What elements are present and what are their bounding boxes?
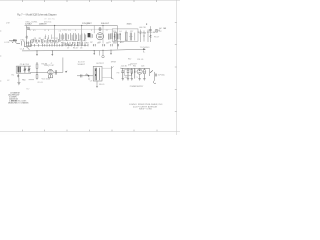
- resistor R14: [131, 68, 133, 78]
- junction: [36, 72, 37, 73]
- notes list bottom left: [8, 92, 29, 105]
- resistor R9: [149, 35, 151, 38]
- wire T2 bottom: [96, 81, 98, 86]
- T1 secondary winding: [126, 33, 127, 41]
- wire ps right: [149, 68, 151, 76]
- svg-text:C24 .05: C24 .05: [137, 59, 143, 61]
- tube V3 envelope: [48, 70, 53, 75]
- junction: [52, 50, 53, 51]
- tube V5 label 35Z5: [127, 22, 149, 26]
- svg-text:C3: C3: [34, 38, 36, 40]
- rectifier area labels: [138, 27, 167, 34]
- socket pins row: [63, 42, 85, 46]
- svg-text:C23: C23: [141, 66, 144, 68]
- svg-text:FIELD: FIELD: [99, 84, 105, 86]
- value labels band: [34, 38, 58, 40]
- volume control R4: [36, 72, 38, 79]
- svg-text:40: 40: [121, 72, 123, 74]
- wire gang left side: [15, 66, 17, 73]
- svg-text:C4: C4: [44, 38, 46, 40]
- antenna wire: [26, 26, 28, 45]
- wire det output: [54, 71, 63, 73]
- IF can extra strokes: [59, 33, 86, 45]
- wire to ground: [18, 78, 20, 83]
- capacitor C11: [103, 44, 105, 46]
- T1 primary winding: [115, 33, 117, 41]
- svg-text:117 V. 60 CY: 117 V. 60 CY: [147, 32, 159, 34]
- svg-text:POWER SUPPLY: POWER SUPPLY: [130, 86, 144, 88]
- loop antenna L1: [14, 39, 16, 41]
- T2 core marks: [95, 69, 97, 75]
- svg-text:C9: C9: [90, 80, 92, 82]
- capacitor C27: [111, 33, 112, 39]
- resistor R6 leads: [91, 34, 93, 39]
- oscillator coil L2: [18, 67, 20, 73]
- svg-text:L5: L5: [125, 31, 127, 33]
- wire grid bus: [27, 28, 113, 30]
- svg-text:TO PHONO: TO PHONO: [140, 47, 150, 49]
- svg-text:455KC: 455KC: [113, 42, 119, 44]
- svg-text:OSC.-CONV.: OSC.-CONV.: [25, 22, 37, 24]
- svg-text:LOOP: LOOP: [4, 42, 10, 44]
- ground ps 1: [122, 79, 124, 81]
- tube V4 envelope: [96, 33, 103, 40]
- capacitor C29: [118, 34, 119, 40]
- svg-text:R1: R1: [39, 38, 41, 40]
- chassis arrow 3: [93, 51, 95, 55]
- T1 value labels: [113, 31, 134, 45]
- resistor R1: [26, 36, 28, 39]
- trimmer C4: [17, 74, 19, 78]
- svg-text:150: 150: [143, 71, 146, 73]
- T2 secondary: [98, 68, 100, 80]
- wire V5: [139, 74, 141, 78]
- svg-text:50L6GT: 50L6GT: [101, 23, 110, 25]
- chassis arrow 2: [51, 51, 53, 56]
- junction: [88, 75, 90, 77]
- junction: [102, 50, 103, 51]
- svg-text:C4: C4: [46, 42, 48, 44]
- wire output grid line: [77, 75, 93, 77]
- V5 cathode: [138, 69, 140, 72]
- tube V3 base: [88, 33, 91, 37]
- svg-text:R11: R11: [133, 66, 136, 68]
- wire ps top: [121, 67, 150, 69]
- diode load cluster: [48, 75, 53, 78]
- wire gang bottom: [16, 72, 31, 74]
- switch SW1: [150, 70, 153, 72]
- coupling capacitor C5: [55, 70, 56, 74]
- svg-text:C9: C9: [72, 43, 74, 45]
- svg-text:R3 4.7: R3 4.7: [73, 48, 78, 50]
- svg-text:12SQ7: 12SQ7: [44, 65, 50, 67]
- svg-text:C7: C7: [51, 38, 53, 40]
- svg-text:L2: L2: [7, 80, 9, 82]
- svg-text:R12: R12: [128, 58, 131, 60]
- svg-text:L40 C30: L40 C30: [139, 27, 146, 29]
- ground: [17, 82, 20, 85]
- svg-text:C17: C17: [130, 31, 133, 33]
- junction on B+ rail: [81, 25, 82, 26]
- svg-text:6: 6: [48, 30, 49, 32]
- wire cathode bypass: [88, 78, 90, 80]
- svg-text:3 5: 3 5: [68, 30, 71, 32]
- svg-text:PAD: PAD: [22, 78, 26, 81]
- svg-text:R-7: R-7: [27, 89, 30, 91]
- wire antenna lead: [9, 40, 17, 42]
- arrowhead: [143, 48, 146, 50]
- chassis arrow 4: [110, 51, 112, 55]
- svg-text:2 7 8: 2 7 8: [63, 30, 67, 32]
- wire bottom left: [29, 79, 34, 81]
- variable capacitor C2: [24, 66, 27, 73]
- svg-text:I.F.: I.F.: [44, 23, 47, 25]
- svg-text:C8 .05: C8 .05: [37, 82, 43, 84]
- tube V4 electrodes: [98, 35, 102, 38]
- svg-text:8: 8: [45, 30, 46, 32]
- arrow to grid: [65, 71, 68, 73]
- svg-text:4 5: 4 5: [33, 30, 36, 32]
- band switch S1: [22, 41, 32, 46]
- choke L6: [134, 68, 135, 78]
- ground ps 5: [143, 79, 145, 81]
- T1 trimmer C15: [130, 33, 131, 41]
- wire screen drop: [93, 26, 95, 34]
- capacitor C6: [81, 74, 82, 77]
- svg-text:20: 20: [131, 72, 133, 74]
- svg-text:ADJUST: ADJUST: [78, 61, 86, 64]
- tube V3 label 12SQ7: [82, 23, 92, 25]
- coil tail arc: [27, 47, 30, 50]
- svg-text:6: 6: [75, 30, 76, 32]
- svg-text:DET: DET: [87, 23, 92, 25]
- wire drop to V3: [81, 26, 83, 44]
- IF transformer windings and pins: [62, 33, 86, 40]
- value labels under IF: [67, 48, 82, 50]
- svg-text:B+: B+: [143, 51, 145, 53]
- svg-text:C2-A C2-B: C2-A C2-B: [20, 63, 30, 66]
- junction on B+ rail: [54, 25, 55, 26]
- phono jack J1: [102, 51, 104, 58]
- svg-text:455 KC: 455 KC: [44, 22, 52, 24]
- svg-text:50L6GT: 50L6GT: [78, 64, 86, 66]
- svg-text:C8: C8: [80, 48, 82, 50]
- svg-text:SPKR: SPKR: [111, 61, 117, 63]
- resistor R10: [144, 68, 146, 78]
- svg-text:3: 3: [30, 30, 31, 32]
- wire AVC right end: [99, 51, 101, 56]
- svg-text:( W: ( W: [6, 23, 9, 25]
- filter capacitor C21: [127, 68, 130, 78]
- capacitor C12: [111, 44, 112, 46]
- wire stub: [16, 42, 20, 44]
- capacitor C26: [109, 34, 110, 40]
- svg-text:C6: C6: [106, 42, 108, 44]
- svg-text:NEW YORK: NEW YORK: [139, 109, 153, 111]
- rectifier tube V5 envelope: [137, 69, 142, 74]
- svg-text:L4: L4: [119, 31, 121, 33]
- svg-text:R7: R7: [90, 42, 92, 44]
- wire drop to V4: [102, 26, 104, 44]
- svg-text:117V.AC: 117V.AC: [158, 74, 166, 77]
- pin number labels: [30, 30, 109, 32]
- wire rectifier lead: [149, 26, 151, 42]
- bottom right block: [129, 104, 163, 111]
- svg-text:VOL 500K: VOL 500K: [42, 79, 51, 81]
- wire det plate: [62, 58, 64, 73]
- heater row value labels: [11, 41, 116, 47]
- variable capacitor C3: [28, 66, 31, 73]
- grid capacitor C25: [98, 27, 101, 31]
- svg-text:C7: C7: [67, 48, 69, 50]
- value labels ps: [121, 66, 146, 79]
- svg-text:R2: R2: [56, 38, 58, 40]
- ground ps 2: [127, 79, 129, 81]
- svg-text:5: 5: [91, 30, 92, 32]
- svg-text:C16: C16: [113, 31, 116, 33]
- tube socket pins V1 V2: [31, 40, 60, 43]
- svg-text:1 4: 1 4: [59, 30, 62, 32]
- tube V4 label 50L6: [101, 23, 110, 25]
- tube V2 label 12SK7: [39, 22, 52, 26]
- resistor R7: [86, 74, 89, 76]
- IF transformer T1 box: [112, 29, 138, 41]
- speaker SP1: [102, 66, 114, 79]
- chassis arrow T2: [96, 86, 98, 88]
- capacitor C18: [149, 29, 152, 30]
- capacitor C13: [117, 44, 118, 46]
- T1 winding ticks: [114, 33, 132, 40]
- output transformer T2 box: [93, 66, 102, 81]
- svg-text:C5: C5: [97, 42, 99, 44]
- tube V3 electrodes: [49, 71, 52, 74]
- resistor R3: [36, 62, 38, 72]
- svg-text:L3: L3: [47, 38, 49, 40]
- ground ps 4: [138, 79, 140, 81]
- svg-text:SR: SR: [163, 28, 166, 30]
- T2 primary: [95, 68, 96, 80]
- pilot lamp P1: [155, 29, 158, 32]
- junction: [94, 50, 95, 51]
- junction on B+ rail: [102, 25, 103, 26]
- svg-text:12: 12: [36, 42, 38, 44]
- capacitor C1: [27, 27, 31, 29]
- tube V1 label 12SA7: [25, 22, 38, 26]
- svg-text:MEASURED TO CHASSIS: MEASURED TO CHASSIS: [8, 102, 29, 105]
- filter capacitor C20: [122, 68, 125, 78]
- svg-text:OUTPUT: OUTPUT: [96, 63, 105, 65]
- capacitor C28: [114, 34, 116, 39]
- svg-text:35Z5: 35Z5: [127, 24, 133, 26]
- plug P2: [153, 74, 156, 84]
- heater dropping resistor leads: [140, 30, 148, 43]
- padder trimmer parts: [45, 35, 52, 39]
- capacitor C10: [93, 44, 95, 46]
- T1 trimmer C14: [120, 33, 121, 40]
- filter block outline: [125, 70, 132, 76]
- wire AVC bus with arrow end: [22, 49, 144, 51]
- wire drop at rail end: [116, 26, 118, 50]
- svg-text:ADJ: ADJ: [120, 41, 123, 44]
- wire det input: [30, 71, 48, 73]
- svg-text:2 7: 2 7: [106, 30, 109, 32]
- wire gang top: [16, 65, 31, 67]
- svg-text:Fig. 7 — Model 5Q8 Schematic D: Fig. 7 — Model 5Q8 Schematic Diagram: [17, 12, 58, 16]
- wire line cord: [153, 72, 155, 81]
- heater row components: [27, 43, 89, 47]
- svg-text:C9: C9: [108, 42, 110, 44]
- junction: [36, 50, 37, 51]
- wire drop to V1: [54, 26, 56, 43]
- wire inside T1: [134, 33, 136, 41]
- svg-text:C22 40: C22 40: [121, 66, 127, 68]
- svg-text:C7: C7: [56, 42, 58, 44]
- svg-text:R2: R2: [51, 43, 53, 45]
- svg-text:.... ...: .... ...: [18, 17, 23, 19]
- chassis arrow 1: [36, 51, 38, 56]
- junction: [110, 50, 111, 51]
- svg-text:PILOT: PILOT: [154, 37, 160, 39]
- ground ps 3: [131, 79, 133, 81]
- wire B+ rail: [25, 25, 118, 27]
- svg-text:I.F. 455 KC: I.F. 455 KC: [44, 18, 56, 20]
